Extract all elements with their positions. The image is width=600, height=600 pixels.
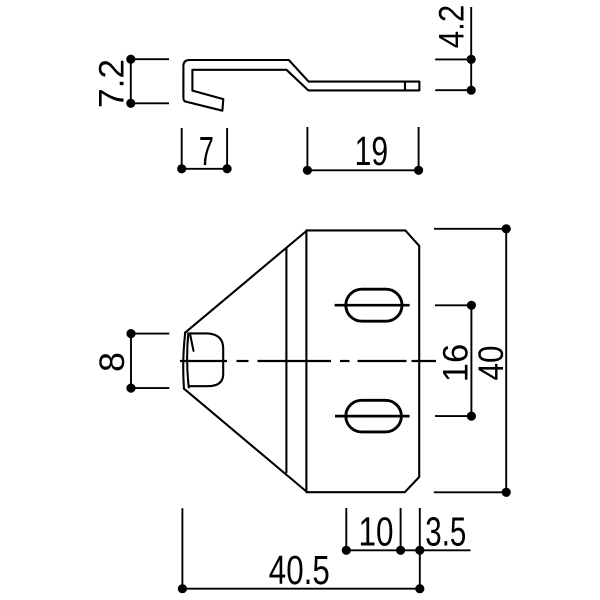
dimension 16 <box>435 305 471 416</box>
svg-text:40: 40 <box>472 346 511 381</box>
lower slant edge <box>184 389 306 492</box>
svg-text:4.2: 4.2 <box>433 5 472 49</box>
upper slant edge <box>185 231 306 333</box>
dimension 4.2 <box>435 7 471 90</box>
svg-text:7: 7 <box>199 128 214 174</box>
fold edge short line <box>190 335 193 351</box>
svg-text:16: 16 <box>437 344 476 383</box>
profile outline <box>183 60 419 111</box>
upper slot <box>346 289 402 321</box>
svg-text:7.2: 7.2 <box>92 59 131 108</box>
svg-text:19: 19 <box>355 128 389 174</box>
inner bend line <box>285 248 287 472</box>
dimension 19 <box>307 127 418 170</box>
dimension 7 <box>182 128 227 169</box>
svg-text:10: 10 <box>359 509 394 555</box>
plate with chamfered right corners <box>306 230 419 492</box>
svg-text:40.5: 40.5 <box>269 547 330 593</box>
svg-text:8: 8 <box>93 352 132 372</box>
hook tip outer arc <box>183 333 185 389</box>
lower slot <box>346 400 402 432</box>
dimension 40 <box>434 229 509 493</box>
svg-text:3.5: 3.5 <box>425 509 466 555</box>
hook tip inner arc <box>187 333 189 387</box>
dimension 8 <box>131 334 169 389</box>
dimensions 10 and 3.5 <box>346 508 470 589</box>
hook tip D outline <box>188 333 223 386</box>
dimension 7.2 <box>131 59 169 103</box>
dimension 40.5 <box>182 508 419 588</box>
tick at strip end <box>404 82 406 89</box>
center line (dash-dot) <box>180 360 436 362</box>
